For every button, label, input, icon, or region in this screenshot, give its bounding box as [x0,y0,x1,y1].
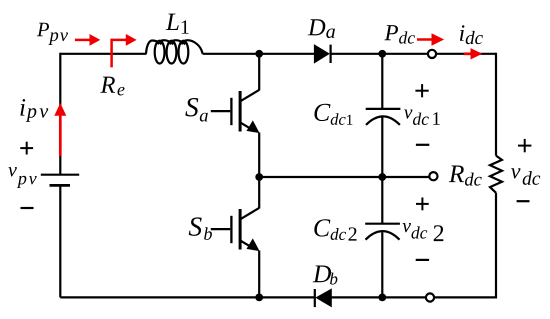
node junction bottom Sb [255,294,263,302]
label Rdc [449,165,482,185]
node junction top Cdc1 [378,50,386,58]
battery source vpv short plate [50,184,71,187]
label vdc right [511,168,540,185]
label Cdc1 [314,104,352,125]
wire bottom rail terminal to right corner [434,296,496,298]
arrow Re elbow [112,34,137,67]
wire right rail lower [495,193,497,299]
arrow Pdc power flow [417,33,444,45]
wire middle rail [259,176,429,178]
inductor L1 [146,40,203,63]
arrow Ppv power flow [75,34,100,46]
label L1 [166,14,189,34]
wire Sa collector to top rail [258,54,260,91]
label Sb [189,217,212,239]
wire Cdc2 branch upper [381,177,383,224]
arrow idc current [464,48,483,59]
label Re [100,77,124,96]
battery source vpv long plate [41,174,79,176]
capacitor Cdc2 [365,224,400,240]
label Sa [185,98,207,122]
wire Sb emitter to bottom rail [258,251,260,298]
wire Sb collector to middle rail [258,177,260,208]
wire top rail Da bar to terminal [331,53,428,55]
node junction mid Sa-Sb [255,173,263,181]
node junction bottom Cdc2 [378,294,386,302]
node junction mid Cdc [378,173,386,181]
wire Cdc1 branch lower [381,117,383,177]
terminal bottom [426,293,434,301]
transistor Sa (IGBT) [211,90,260,133]
label vpv plus [20,142,33,155]
label vdc2 minus [416,259,429,261]
label Ppv [37,23,68,45]
wire left rail lower [59,185,61,297]
wire top rail terminal to right corner [436,53,496,55]
wire Cdc1 branch upper [381,54,383,109]
label idc [460,25,483,44]
terminal middle [429,172,437,180]
wire top rail left segment [60,53,146,55]
label Da [308,19,335,38]
label vdc1 [404,109,440,125]
label Pdc [384,25,415,44]
label vdc right minus [517,200,530,202]
wire left rail upper [59,53,61,175]
diode Db [315,289,331,307]
arrow ipv current [54,103,66,156]
wire Sa emitter to middle rail [258,133,260,178]
label vdc1 plus [415,84,428,97]
transistor Sb (IGBT) [211,208,260,251]
label vdc right plus [518,139,531,152]
label vpv minus [21,207,34,209]
capacitor Cdc1 [366,109,401,125]
label Db [313,266,338,285]
label vdc1 minus [416,144,429,146]
label ipv [20,99,48,122]
wire bottom rail Db to terminal [331,296,426,298]
label Cdc2 [314,219,356,240]
wire top rail inductor to Da [203,53,315,55]
resistor Rdc [490,156,502,193]
label vpv [8,167,36,188]
node junction top Sa [255,50,263,58]
wire Cdc2 branch lower [381,232,383,297]
label vdc2 [403,223,444,241]
wire bottom rail left segment [60,296,314,298]
label vdc2 plus [416,198,429,211]
terminal top Pdc [428,50,436,58]
wire right rail upper [495,53,497,156]
diode Da [315,45,331,63]
